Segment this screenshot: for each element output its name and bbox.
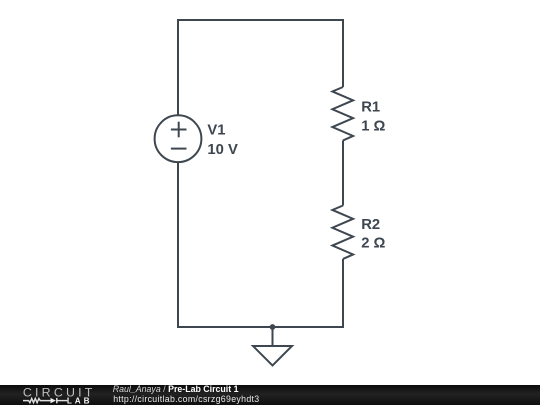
svg-text:V1: V1 <box>207 122 225 138</box>
wire right upper <box>342 19 344 87</box>
resistor R2 <box>332 206 353 259</box>
wire left lower <box>177 162 179 328</box>
resistor R1 <box>332 87 353 140</box>
svg-text:2 Ω: 2 Ω <box>361 236 385 252</box>
node junction dot <box>270 324 276 330</box>
svg-text:R2: R2 <box>361 217 380 233</box>
logo wire to LAB <box>58 400 68 402</box>
svg-text:LAB: LAB <box>67 397 93 405</box>
voltage source V1 <box>155 115 202 162</box>
svg-text:http://circuitlab.com/csrzg69e: http://circuitlab.com/csrzg69eyhdt3 <box>113 394 259 404</box>
wire top <box>177 19 344 21</box>
ground <box>253 327 292 366</box>
svg-text:1 Ω: 1 Ω <box>361 119 385 135</box>
svg-text:R1: R1 <box>361 99 380 115</box>
svg-text:Raul_Anaya / Pre-Lab Circuit 1: Raul_Anaya / Pre-Lab Circuit 1 <box>113 384 239 394</box>
wire bottom <box>177 326 344 328</box>
wire right middle <box>342 140 344 205</box>
wire right lower <box>342 259 344 328</box>
logo diode <box>51 398 58 403</box>
logo resistor squiggle <box>23 399 51 403</box>
svg-text:10 V: 10 V <box>207 142 238 158</box>
footer bar <box>0 385 540 405</box>
wire left upper <box>177 19 179 115</box>
